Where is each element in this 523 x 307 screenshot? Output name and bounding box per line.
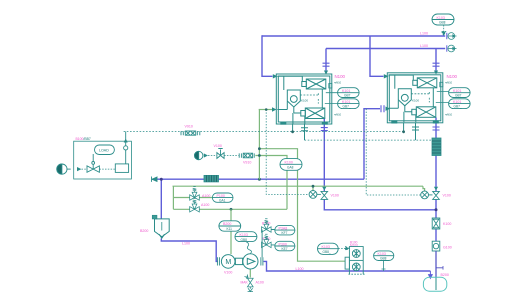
wire drop from line 2 into unit 1 top — [325, 49, 327, 74]
stadium P300 KE7 — [275, 241, 295, 251]
junction dotted drop 1 — [265, 108, 268, 111]
svg-text:M: M — [225, 259, 231, 266]
svg-text:KE7: KE7 — [282, 247, 288, 251]
drain valve below compressor — [245, 275, 254, 287]
svg-text:P300: P300 — [279, 242, 287, 246]
svg-text:GA1: GA1 — [219, 199, 226, 203]
vent tick on dip line — [436, 266, 443, 270]
wire instrument line compressor to B100 valves — [262, 230, 275, 258]
svg-text:K11: K11 — [227, 227, 233, 231]
hand valve V100 mid row — [217, 149, 224, 159]
signal dashed drop from stadium K103 to line 1 — [442, 25, 446, 36]
stadium B200 K11 on motor line — [219, 221, 241, 231]
stadium K100 GA8 gauge — [280, 159, 302, 171]
svg-text:MAK: MAK — [241, 281, 249, 285]
svg-text:B200: B200 — [223, 222, 231, 226]
stadium K101 GB7 unit 2 upper — [449, 88, 471, 98]
wire green drop to motor — [230, 209, 232, 254]
svg-text:V910: V910 — [185, 124, 193, 128]
svg-text:G100: G100 — [443, 246, 452, 250]
stadium K103 GB8 compressor — [235, 232, 257, 242]
control valve A100 no.2 — [190, 198, 200, 212]
svg-text:K103: K103 — [437, 16, 445, 20]
inline device G100 — [432, 241, 440, 251]
junction V910 row at green drop — [258, 154, 261, 157]
svg-text:K100: K100 — [443, 222, 451, 226]
svg-text:B200: B200 — [441, 273, 449, 277]
wire unit 2 flanged drop — [412, 123, 419, 141]
signal dashed valve to converter box — [99, 168, 115, 170]
junction green branch — [258, 147, 261, 150]
unit N100 no.1 — [276, 74, 337, 125]
filter on horizontal return line — [204, 175, 219, 182]
junction hopper feed — [160, 178, 163, 181]
junction instrument drop 1 — [291, 130, 294, 133]
svg-text:K103: K103 — [322, 245, 330, 249]
seal pot circle on riser — [124, 146, 128, 150]
arrow into unit 2 inlet — [384, 74, 389, 78]
wire green A100 valve manifold — [173, 186, 287, 209]
stadium K101 GB7 unit 1 lower — [338, 99, 360, 109]
signal dashed below sample box — [349, 273, 366, 275]
svg-text:K100: K100 — [301, 99, 308, 103]
wire green feed into unit 1 side port — [259, 109, 272, 111]
junction green drop 1 — [312, 185, 315, 188]
svg-text:L100: L100 — [420, 32, 428, 36]
signal dashed to valve V100 — [208, 155, 217, 157]
stadium K101 GB7 unit 2 lower — [449, 99, 471, 109]
arrow pump to valve V100 — [204, 153, 208, 157]
tank B200 — [423, 277, 446, 291]
wire dip tube into tank — [435, 277, 437, 290]
wire unit 2 instrument drop solid — [403, 123, 405, 132]
wire unit 1 instrument drop solid — [292, 124, 294, 132]
svg-text:K101: K101 — [453, 100, 461, 104]
signal dotted drop unit 2 to valve assembly 2 — [366, 109, 421, 195]
arrow into tank B200 — [429, 271, 433, 278]
svg-text:V100: V100 — [443, 193, 451, 197]
svg-text:V910: V910 — [243, 160, 251, 164]
svg-text:K100: K100 — [412, 99, 419, 103]
signal dashed top line from LOAD box — [124, 131, 404, 133]
svg-text:L100: L100 — [296, 267, 304, 271]
valve assembly V100 unit 2 return — [421, 191, 440, 199]
double block valve V910 mid row — [239, 153, 254, 158]
wire L100 header line 1 — [262, 35, 445, 37]
wire unit 1 flanged drop — [301, 124, 308, 140]
arrow into unit 2 side port — [386, 107, 391, 111]
wire G100 outlet — [435, 251, 437, 278]
wire green compressor drain — [249, 269, 251, 278]
stadium K103 GB8 analyzer left — [318, 243, 339, 254]
svg-text:K101: K101 — [342, 89, 350, 93]
svg-text:LOAD: LOAD — [99, 149, 109, 153]
arrow hopper outlet — [159, 234, 164, 238]
hopper B200 — [152, 215, 169, 236]
signal dashed valve to V910 block — [224, 155, 239, 157]
wire unit 2 valve outlet down to K100 and G100 — [435, 199, 437, 241]
svg-text:N100: N100 — [447, 74, 458, 79]
valve assembly V100 unit 1 return — [309, 191, 328, 200]
svg-text:A100: A100 — [256, 281, 264, 285]
stadium K103 GB8 top right — [432, 14, 454, 25]
LOAD control box B100 — [74, 141, 132, 179]
svg-text:L100: L100 — [420, 44, 428, 48]
wire drop from line 2 into unit 2 top — [435, 49, 437, 74]
wire filter return line — [152, 178, 364, 180]
wire riser to unit N100 no.2 inlet — [370, 36, 384, 76]
svg-text:A100: A100 — [202, 194, 210, 198]
flange motor suction — [217, 257, 219, 265]
control valve A100 no.1 — [190, 187, 200, 201]
svg-text:GB7: GB7 — [344, 94, 351, 98]
svg-text:K101: K101 — [453, 89, 461, 93]
svg-text:◄M10: ◄M10 — [445, 80, 453, 84]
arrow into unit 2 top port — [434, 71, 438, 75]
junction motor drop — [230, 208, 233, 211]
control valve B100 no.1 — [262, 219, 272, 232]
svg-text:N100: N100 — [335, 74, 346, 79]
signal dashed analyzer to sample box — [338, 247, 349, 251]
stadium P3A8 KF7 — [275, 225, 295, 235]
svg-text:V100: V100 — [224, 271, 232, 275]
signal dashed pump to LOAD valve — [82, 168, 87, 170]
inline device K100 — [432, 218, 440, 229]
arrow up at LOAD box edge — [124, 139, 128, 143]
signal dashed line under units — [305, 139, 434, 141]
svg-text:K103: K103 — [378, 252, 386, 256]
svg-text:P3A8: P3A8 — [279, 226, 288, 230]
squiggle stadium to compressor — [246, 242, 252, 254]
wire unit 1 valve outlet elbow to header — [324, 199, 436, 210]
wire compressor discharge L100 — [264, 261, 431, 271]
junction green to return line — [258, 178, 261, 181]
svg-text:V100: V100 — [331, 193, 339, 197]
wire L100 header line 2 — [326, 48, 445, 50]
svg-text:V100: V100 — [214, 144, 222, 148]
converter box inside LOAD box — [115, 164, 128, 173]
filter on vertical line below unit 2 — [432, 138, 441, 156]
svg-text:B100/BB7: B100/BB7 — [76, 137, 91, 141]
svg-text:GB7_: GB7_ — [343, 105, 351, 109]
wire purple return riser to unit 2 side port — [364, 109, 380, 180]
wire long green header — [173, 185, 424, 187]
svg-text:L100: L100 — [182, 242, 190, 246]
arrow pump to valve — [77, 167, 81, 171]
svg-text:P100: P100 — [217, 194, 225, 198]
pump symbol left of LOAD box — [57, 164, 71, 174]
wire green drop to valve assembly 1 — [312, 186, 314, 191]
svg-text:GB8_: GB8_ — [241, 238, 249, 242]
junction discharge header at K100 line — [435, 208, 438, 211]
svg-text:K100: K100 — [285, 161, 293, 165]
wire green V910 row continuation — [255, 156, 287, 210]
control valve B100 no.2 — [262, 234, 272, 247]
wire riser to unit N100 no.1 inlet — [262, 35, 273, 76]
control valve inside LOAD box — [87, 154, 99, 172]
arrow into unit 1 top port — [324, 71, 328, 75]
compressor body — [235, 254, 258, 269]
flange pair below unit 1 — [321, 128, 328, 131]
stadium K101 GB7 unit 1 upper — [338, 88, 360, 98]
wire unit 2 bottom drop through filter to valve V100 — [435, 118, 437, 192]
arrow into unit 1 side port — [272, 107, 277, 111]
flange pair below unit 2 — [433, 127, 440, 130]
wire green drop to valve assembly 2 — [423, 186, 425, 191]
junction instrument drop 2 — [402, 130, 405, 133]
stadium LOAD — [95, 145, 115, 155]
arrow drain outlet — [248, 287, 253, 292]
svg-text:K103: K103 — [240, 233, 248, 237]
pump symbol mid row — [195, 151, 203, 159]
stadium K103 GB8 on discharge — [374, 251, 394, 261]
svg-text:GB8: GB8 — [380, 257, 387, 261]
off-page connector line 2 — [447, 45, 457, 52]
wire green line unit 1 side port drop — [258, 110, 260, 180]
svg-text:◄M10: ◄M10 — [334, 80, 342, 84]
svg-text:B200: B200 — [140, 229, 148, 233]
svg-text:GB8: GB8 — [439, 21, 446, 25]
svg-text:GA8: GA8 — [287, 166, 294, 170]
wire hopper feed drop — [160, 179, 162, 218]
svg-text:A100: A100 — [201, 203, 209, 207]
sample box B100 with fans — [345, 247, 363, 275]
arrow west end of return line — [152, 177, 158, 182]
svg-text:GB7: GB7 — [455, 94, 462, 98]
arrow above valve 2 — [434, 187, 438, 191]
wire unit 1 bottom drop to valve V100 — [323, 119, 325, 191]
wire stadium drop to discharge line — [382, 261, 386, 272]
wire hopper outlet L100 to compressor — [161, 239, 218, 262]
double block valve V910 on dashed line — [181, 131, 200, 135]
off-page connector line 1 — [447, 33, 457, 40]
flange compressor discharge — [261, 257, 263, 265]
flange pair at unit 2 side port — [381, 105, 384, 112]
wire converter riser with seal pot — [125, 132, 127, 164]
stadium P100 GA1 — [212, 193, 233, 202]
svg-text:GB7_: GB7_ — [454, 105, 462, 109]
signal dotted drop unit 1 to valve assembly 1 — [266, 110, 309, 195]
flange pair on unit 2 top riser — [433, 63, 440, 66]
svg-text:K101: K101 — [342, 100, 350, 104]
unit N100 no.2 — [387, 73, 448, 124]
arrow into unit 1 inlet — [273, 74, 278, 78]
svg-text:KF7: KF7 — [282, 231, 288, 235]
arrow above valve 1 — [322, 187, 326, 191]
motor M — [221, 255, 235, 269]
svg-text:◄M10: ◄M10 — [334, 112, 342, 116]
svg-text:◄M10: ◄M10 — [445, 112, 453, 116]
flange pair on unit 1 top riser — [323, 63, 330, 66]
svg-text:GB8_: GB8_ — [323, 250, 331, 254]
wire green branch to gauge riser — [259, 149, 345, 262]
